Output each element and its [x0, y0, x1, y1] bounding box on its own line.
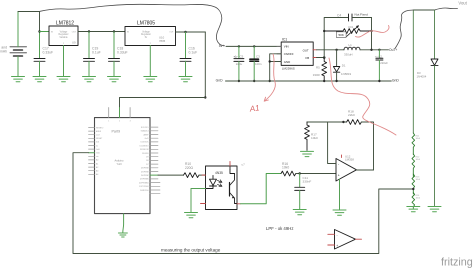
svg-text:AREF: AREF — [96, 130, 102, 133]
svg-text:A1: A1 — [248, 103, 260, 113]
junction C3 bottom — [253, 80, 255, 82]
svg-text:VIN: VIN — [284, 45, 289, 49]
svg-text:measuring the output voltage: measuring the output voltage — [161, 247, 221, 252]
pin U12 V+ (unrouted) — [341, 155, 343, 158]
svg-text:3v3: 3v3 — [96, 142, 99, 144]
junction C18 — [113, 30, 115, 32]
svg-text:A0: A0 — [96, 159, 98, 162]
svg-text:-: - — [337, 233, 338, 237]
wire R18 to output — [361, 122, 373, 170]
svg-text:D10/SS: D10/SS — [142, 153, 149, 155]
svg-text:GnD: GnD — [216, 78, 224, 82]
red annotation squiggle at trimmer — [356, 26, 390, 38]
wire C4 loop left — [324, 18, 348, 32]
svg-text:GnD: GnD — [96, 149, 101, 151]
svg-text:GnD: GnD — [392, 78, 400, 82]
wire U12 -in feedback — [328, 122, 336, 164]
wire diode branch — [434, 10, 436, 59]
capacitor C11 330nF — [295, 174, 312, 210]
svg-text:D6/PWM: D6/PWM — [141, 168, 149, 170]
junction D1 bottom — [335, 80, 337, 82]
wire node A to U9 IN — [40, 31, 50, 33]
junction C3 top — [253, 45, 255, 47]
svg-text:OUT: OUT — [303, 49, 309, 53]
wire rail down to node A (C17 / U9 IN) — [39, 12, 41, 32]
wire IC1 FB node — [317, 57, 325, 59]
pin IC1 GND — [277, 61, 281, 63]
svg-text:330R: 330R — [313, 73, 320, 77]
svg-text:1: 1 — [108, 121, 109, 123]
hand-drawn wire OuT+ to Vout — [395, 10, 413, 49]
svg-text:LM7812: LM7812 — [56, 21, 74, 27]
pin U10 GND — [149, 46, 151, 77]
ground C18 — [108, 77, 121, 82]
svg-text:Variable: Variable — [59, 36, 68, 39]
junction divider tap — [412, 188, 414, 190]
wire L1 to OuT+ — [360, 49, 389, 51]
junction C5 bottom — [238, 80, 240, 82]
svg-text:10k0: 10k0 — [282, 166, 289, 170]
junction IC1 gnd — [269, 80, 271, 82]
wire top rail — [18, 11, 40, 13]
transistor inside — [229, 183, 231, 197]
svg-text:RESET: RESET — [96, 138, 103, 140]
ground C17 — [33, 77, 46, 82]
wire GnD rail — [226, 80, 392, 82]
ground R17 — [301, 151, 314, 156]
svg-text:Regulator: Regulator — [141, 33, 151, 36]
svg-text:Not Fixed: Not Fixed — [355, 13, 369, 17]
op-amp U12 LM358 — [336, 154, 357, 181]
pin U13 -in — [328, 233, 335, 235]
pin top 2 (wired) — [119, 108, 121, 118]
trimmer R4 50K — [324, 25, 371, 38]
pin IC1 OUT — [313, 49, 317, 51]
resistor R13 10k0 — [412, 174, 415, 194]
voltage regulator U10 LM7805 — [125, 21, 176, 46]
svg-text:mAh: mAh — [0, 50, 7, 54]
wire C4 loop right — [353, 17, 372, 19]
resistor R12 10k0 — [412, 154, 415, 176]
svg-text:0.1uF: 0.1uF — [92, 50, 101, 54]
pin IC1 ON/OFF — [277, 53, 281, 55]
svg-text:D5/PWM: D5/PWM — [141, 171, 149, 173]
ground D3 — [428, 207, 441, 212]
optocoupler U7 4N35 — [206, 166, 238, 210]
svg-text:U01: U01 — [348, 25, 354, 29]
svg-text:D12/MISO: D12/MISO — [140, 145, 149, 147]
LED inside — [212, 176, 214, 180]
wire U9 OUT to U10 IN — [78, 31, 125, 33]
svg-text:7805: 7805 — [159, 39, 166, 43]
svg-text:+: + — [336, 244, 338, 248]
svg-text:fritzing: fritzing — [441, 257, 473, 269]
svg-text:220u: 220u — [236, 62, 243, 66]
resistor R16 10k0 — [281, 162, 296, 176]
wire MCU A1 to divider tap (measuring path) — [73, 153, 413, 254]
capacitor C16 0.1uF — [180, 32, 197, 77]
svg-text:FB: FB — [305, 56, 309, 60]
pin U13 +in — [328, 244, 335, 246]
ground MCU — [118, 233, 127, 237]
wire MCU top pin to node B — [120, 98, 206, 118]
junction C16 — [184, 31, 186, 33]
svg-text:LM358: LM358 — [345, 158, 354, 162]
svg-text:2: 2 — [119, 121, 120, 123]
svg-text:10k0: 10k0 — [416, 198, 421, 200]
svg-text:D4/PWM: D4/PWM — [141, 175, 149, 177]
ground battery — [17, 57, 19, 77]
resistor R11 10k0 — [412, 133, 415, 154]
svg-text:D0/RX/D0: D0/RX/D0 — [140, 190, 149, 192]
wire U12 output — [357, 169, 374, 171]
junction FB — [323, 56, 326, 59]
svg-text:4N35: 4N35 — [215, 171, 223, 175]
wire R16 to U12 +in — [296, 173, 336, 175]
pin MCU bottom (wired) — [122, 214, 125, 233]
capacitor C3 100n — [250, 46, 262, 81]
svg-text:Regulator: Regulator — [59, 33, 69, 36]
ground U12 — [333, 210, 346, 215]
svg-text:50K: 50K — [339, 33, 344, 37]
junction R5 bottom — [323, 80, 325, 82]
svg-text:D1/TX/D60: D1/TX/D60 — [139, 186, 148, 188]
pin IC1 VIN — [277, 45, 281, 47]
pins MCU left side — [89, 128, 95, 175]
svg-text:D9: D9 — [146, 157, 148, 159]
svg-text:GnD: GnD — [96, 153, 101, 155]
svg-text:LPF - ok 49Hz: LPF - ok 49Hz — [266, 226, 293, 231]
svg-text:+: + — [338, 174, 340, 178]
diode D1 1N5819 — [333, 50, 351, 81]
resistor R18 22k0 — [347, 110, 362, 125]
wire IC1 ON/OFF + GND to ground rail — [270, 54, 281, 81]
svg-text:OuT+: OuT+ — [389, 48, 397, 52]
svg-text:Voltage: Voltage — [60, 31, 68, 34]
junction C2 bottom — [378, 80, 380, 82]
svg-text:u7: u7 — [242, 163, 246, 167]
svg-text:D2/PWM60: D2/PWM60 — [139, 182, 149, 184]
svg-text:22k0: 22k0 — [348, 113, 355, 117]
svg-text:D7: D7 — [146, 164, 148, 166]
buck converter IC1 LM2596S — [281, 38, 313, 71]
pin U13 out — [356, 238, 362, 240]
wire U10 OUT to node B — [176, 31, 206, 33]
svg-text:AREF: AREF — [143, 133, 149, 136]
svg-text:D11/MOSI: D11/MOSI — [140, 149, 149, 151]
red annotation arrow A1 (ON/OFF pin) — [264, 54, 275, 101]
svg-text:0.1uF: 0.1uF — [189, 50, 198, 54]
svg-text:330nF: 330nF — [303, 180, 312, 184]
junction node A — [38, 30, 40, 32]
svg-text:100n: 100n — [255, 62, 262, 66]
ground U10 — [144, 77, 157, 82]
wire R10 to U7 anode — [199, 174, 206, 176]
svg-text:A4: A4 — [96, 173, 98, 176]
svg-text:D3/PWM6: D3/PWM6 — [140, 179, 149, 181]
svg-text:220uF: 220uF — [380, 61, 388, 65]
svg-text:GND: GND — [284, 60, 290, 64]
svg-text:1N5819: 1N5819 — [341, 72, 352, 76]
svg-text:GnD: GnD — [145, 138, 150, 140]
svg-text:C4: C4 — [337, 13, 341, 17]
svg-text:330uH: 330uH — [344, 53, 353, 57]
resistor R10 220Ω — [184, 162, 200, 178]
svg-text:10k0: 10k0 — [416, 138, 421, 140]
pin U12 V- to ground — [339, 179, 341, 210]
capacitor C5 220u — [234, 46, 244, 81]
pin IC1 FB — [313, 57, 317, 59]
svg-text:220Ω: 220Ω — [185, 166, 194, 170]
pin U7 base (top, unrouted) — [229, 162, 231, 167]
svg-text:10k0: 10k0 — [311, 136, 318, 140]
pin top 1 — [108, 108, 110, 118]
junction D1 top — [335, 49, 337, 51]
red annotation curve FB to R18 — [329, 58, 396, 135]
ground divider — [407, 207, 420, 212]
svg-text:C3: C3 — [256, 54, 260, 58]
svg-text:D13/SCK: D13/SCK — [141, 142, 150, 144]
svg-text:Voltage: Voltage — [142, 31, 150, 34]
resistor R14 10k0 — [412, 193, 415, 209]
svg-text:3: 3 — [130, 121, 131, 123]
wire MCU to R10 — [158, 174, 184, 176]
svg-text:R5: R5 — [316, 66, 320, 70]
pin U9 GND — [63, 46, 65, 77]
capacitor C4 — [337, 13, 368, 22]
junction OUT/trimmer — [370, 49, 372, 51]
svg-text:Vout: Vout — [458, 1, 467, 6]
resistor R5 330R — [313, 58, 327, 81]
wire IC1 OUT to L1 — [317, 49, 345, 51]
svg-text:U9: U9 — [72, 41, 76, 45]
svg-text:LM2596S: LM2596S — [282, 66, 295, 70]
voltage regulator U9 LM7812 — [49, 21, 78, 46]
svg-text:A2: A2 — [96, 166, 98, 169]
svg-text:IC1: IC1 — [282, 38, 287, 42]
capacitor C2 220uF — [375, 50, 388, 81]
hand-drawn wire battery rail to 5v+ — [40, 4, 225, 46]
microcontroller U11 Part9 (Arduino) — [95, 108, 151, 214]
op-amp U13 (unrouted) — [335, 230, 356, 250]
inductor L1 330uH — [344, 43, 360, 57]
svg-text:ON/OFF: ON/OFF — [284, 52, 294, 56]
ground C19 — [83, 77, 96, 82]
pin MCU A1 (wired left) — [89, 152, 95, 154]
svg-text:A3: A3 — [96, 170, 98, 173]
wire top-right bus — [413, 9, 435, 11]
svg-text:SCL/D15: SCL/D15 — [141, 127, 149, 129]
pin U7 NC (unrouted) — [201, 203, 206, 205]
capacitor C19 0.1uF — [84, 32, 101, 77]
svg-text:vin: vin — [96, 156, 98, 158]
svg-text:C5: C5 — [240, 54, 244, 58]
svg-text:D8: D8 — [146, 160, 148, 162]
svg-text:+▷: +▷ — [234, 55, 239, 59]
capacitor C17 0.33uF — [34, 47, 53, 77]
junction R18 left — [342, 121, 344, 123]
svg-text:SDA/D14: SDA/D14 — [141, 130, 149, 133]
svg-text:LM7805: LM7805 — [137, 21, 155, 27]
ground C16 — [179, 77, 192, 82]
junction trimmer right — [370, 30, 372, 32]
wire battery+ up to top rail — [17, 12, 19, 47]
svg-text:5v: 5v — [96, 145, 98, 147]
battery J1 — [10, 47, 27, 56]
wire node B down (dangling end) — [204, 32, 206, 98]
wire trimmer right node down to OUT line — [371, 18, 373, 50]
pin MCU D9 (wired right) — [150, 174, 158, 176]
svg-text:10k0: 10k0 — [416, 179, 421, 181]
wire Vout divider bus — [412, 10, 414, 133]
svg-text:0.33uF: 0.33uF — [43, 50, 54, 54]
wire 5v+ rail — [226, 45, 281, 47]
svg-text:L1: L1 — [349, 43, 353, 47]
svg-text:YuN: YuN — [117, 162, 122, 166]
svg-text:Part9: Part9 — [112, 130, 121, 134]
resistor R17 10k0 — [305, 122, 318, 150]
ground U9 — [57, 77, 70, 82]
capacitor C18 0.33uF — [109, 32, 128, 77]
junction C2 top — [378, 49, 380, 51]
ground U7 — [185, 213, 198, 218]
svg-text:+▷C2: +▷C2 — [375, 55, 383, 59]
svg-text:1N4004: 1N4004 — [417, 75, 427, 79]
junction C19 — [88, 30, 90, 32]
wire D3 to ground — [434, 66, 436, 207]
wire FB up to trimmer node — [323, 31, 325, 58]
svg-text:0.33uF: 0.33uF — [117, 50, 128, 54]
wire U7 cathode to ground — [191, 189, 206, 213]
junction C11 node — [299, 172, 301, 174]
wire feedback node rail — [307, 121, 347, 123]
pin U7 emitter stub — [237, 203, 241, 205]
svg-text:A1: A1 — [96, 162, 98, 165]
ground C11 — [293, 210, 306, 215]
svg-text:RESET2: RESET2 — [96, 127, 103, 129]
wire U7 emitter to LPF input — [241, 174, 282, 204]
svg-text:ioref: ioref — [96, 134, 100, 137]
svg-text:10k0: 10k0 — [416, 159, 421, 161]
junction trimmer left — [323, 30, 325, 32]
pins MCU right side — [150, 127, 160, 194]
pin U7 anode stub — [202, 174, 206, 176]
svg-text:D1: D1 — [342, 63, 346, 67]
diode D3 1N4004 — [417, 59, 439, 79]
junction C5 top — [238, 45, 240, 47]
pin top 3 — [129, 108, 131, 118]
